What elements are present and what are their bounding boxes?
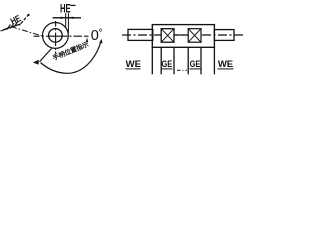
svg-text:WE: WE	[218, 59, 233, 70]
stop line A with hatching	[3, 24, 21, 30]
inner circle (hub)	[49, 29, 63, 43]
leg line 4 (bearing2 left)	[187, 47, 189, 74]
housing	[152, 25, 214, 48]
leg line 5 (bearing2 right)	[200, 47, 202, 74]
left shaft block	[128, 29, 153, 40]
extension line 1	[65, 13, 67, 27]
svg-text:GE: GE	[190, 58, 201, 69]
right shaft block	[214, 30, 234, 41]
handle axis line B (dash-dot to circle edge)	[11, 27, 43, 36]
tick / arrow at end of 0-degree line	[86, 37, 88, 42]
small bar right of HE label	[70, 5, 75, 6]
arrowhead left (points right at x=65.7)	[61, 17, 66, 19]
hatch tick 3	[14, 22, 18, 27]
leg line 3 (bearing1 right)	[173, 47, 175, 74]
bearing square 2 with X	[188, 29, 201, 43]
horizontal centerline / 0-degree line	[34, 35, 89, 37]
hatch tick 1	[7, 24, 11, 29]
arrowhead right (points left at x=68.4)	[68, 17, 73, 19]
bearing square 1 with X	[161, 29, 174, 43]
arc arrowhead left	[33, 60, 39, 65]
leg line 6 (housing right wall)	[213, 47, 215, 74]
arc arrowhead right	[99, 39, 102, 43]
shaft line between bearings	[174, 34, 188, 36]
dash-dot between GE labels	[177, 69, 187, 71]
svg-text:GE: GE	[161, 58, 172, 69]
svg-text:手柄位置指示: 手柄位置指示	[51, 39, 90, 62]
lever / handle line	[40, 49, 52, 62]
hatch tick 2	[10, 23, 14, 28]
leg line 1 (housing left wall)	[151, 47, 153, 74]
outer circle (dial)	[43, 23, 69, 49]
steep dotted line C with dot	[19, 14, 29, 25]
rotation arc (curved arrow)	[41, 43, 101, 74]
extension line 2	[67, 13, 69, 33]
leg line 2 (bearing1 left)	[160, 47, 162, 74]
svg-text:WE: WE	[126, 59, 141, 70]
main centerline	[122, 34, 243, 36]
hatch stroke below stop line	[1, 28, 9, 31]
svg-text:°: °	[98, 28, 102, 40]
vertical centerline	[55, 21, 57, 54]
dimension line HE	[53, 17, 82, 19]
